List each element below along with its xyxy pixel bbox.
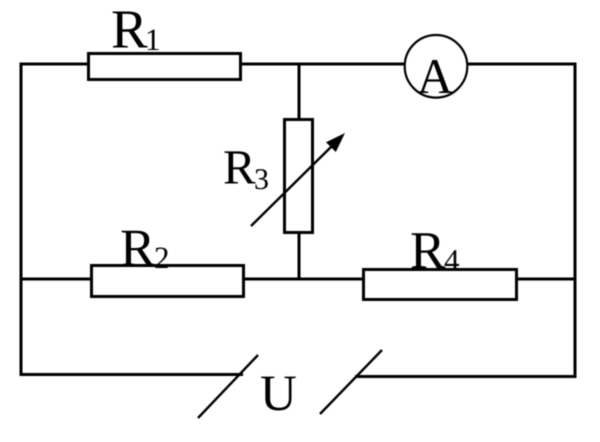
wire bottom-left segment (20, 373, 244, 376)
svg-text:2: 2 (154, 240, 170, 275)
svg-text:R: R (223, 140, 256, 195)
svg-text:U: U (260, 366, 297, 422)
ammeter A (circle) (405, 35, 468, 98)
wire top-middle segment (R1 to ammeter) (240, 63, 406, 66)
resistor R4 (364, 270, 517, 300)
wire left rail (20, 63, 23, 377)
svg-text:A: A (417, 48, 453, 104)
wire R3 branch lower (R3 to middle wire) (298, 232, 301, 279)
wire middle-left segment (left rail to R2) (20, 278, 94, 281)
resistor R2 (92, 266, 244, 297)
resistor R3 (vertical) (285, 120, 313, 233)
wire middle-right segment (R4 to right rail) (515, 278, 577, 281)
wire R3 branch upper (top wire to R3) (298, 64, 301, 120)
source slash right (320, 350, 382, 414)
svg-text:R: R (111, 0, 148, 60)
svg-text:R: R (120, 220, 156, 278)
wire middle-center segment (R2 to R4 through node) (243, 278, 365, 281)
svg-text:1: 1 (145, 22, 161, 57)
wire top-left segment (left rail to R1) (20, 63, 91, 66)
svg-text:4: 4 (444, 243, 460, 278)
wire right rail (574, 63, 577, 379)
wire top-right segment (ammeter to right rail) (466, 63, 577, 66)
R3 variable arrow (251, 133, 345, 226)
svg-text:3: 3 (254, 163, 269, 196)
svg-text:R: R (410, 222, 446, 280)
source slash left (198, 355, 258, 418)
resistor R1 (89, 54, 241, 80)
wire bottom-right segment (355, 375, 577, 378)
